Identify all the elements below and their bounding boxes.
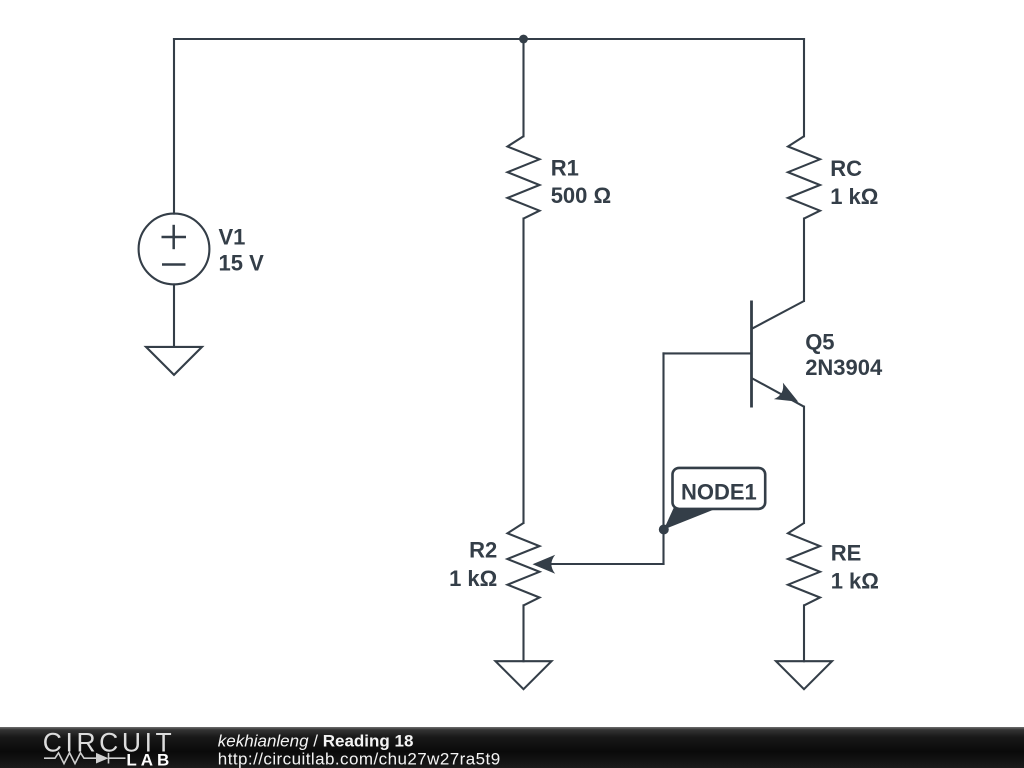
svg-text:LAB: LAB bbox=[126, 750, 173, 768]
svg-text:RC: RC bbox=[830, 156, 862, 181]
wire top rail bbox=[174, 38, 804, 40]
svg-text:NODE1: NODE1 bbox=[681, 480, 757, 505]
node junction dot (top rail) bbox=[519, 35, 528, 44]
svg-text:Q5: Q5 bbox=[805, 330, 834, 355]
wire R2 bottom bbox=[522, 605, 524, 661]
svg-text:kekhianleng / Reading 18: kekhianleng / Reading 18 bbox=[218, 732, 414, 751]
resistor R1 bbox=[508, 136, 540, 218]
svg-text:RE: RE bbox=[831, 541, 862, 566]
ground (RE) bbox=[776, 661, 832, 689]
svg-text:15 V: 15 V bbox=[219, 251, 265, 276]
R2 wiper arrowhead bbox=[533, 555, 556, 574]
wire base horizontal bbox=[664, 352, 751, 354]
NODE1 flag box bbox=[673, 468, 766, 509]
footer bar bbox=[0, 727, 1024, 768]
wire emitter down to RE bbox=[803, 407, 805, 523]
Q5 emitter arrowhead bbox=[774, 383, 803, 410]
svg-text:500 Ω: 500 Ω bbox=[551, 183, 611, 208]
svg-text:1 kΩ: 1 kΩ bbox=[449, 566, 497, 591]
wire RC top bbox=[803, 39, 805, 136]
wire RE bottom bbox=[803, 605, 805, 661]
NODE1 flag pointer tail bbox=[664, 505, 714, 530]
resistor RE bbox=[788, 523, 820, 605]
wire V1 bottom bbox=[173, 284, 175, 347]
ground (V1) bbox=[146, 347, 202, 375]
wire R1 top bbox=[522, 39, 524, 136]
NODE1 attachment dot bbox=[659, 525, 669, 535]
svg-text:2N3904: 2N3904 bbox=[805, 355, 883, 380]
svg-text:V1: V1 bbox=[219, 225, 246, 250]
potentiometer R2 bbox=[508, 523, 540, 605]
wire RC bottom to collector bbox=[803, 219, 805, 301]
wire R1 bottom to R2 top bbox=[522, 219, 524, 523]
wire node vertical bbox=[662, 353, 664, 564]
transistor Q5 bbox=[752, 301, 805, 408]
svg-text:http://circuitlab.com/chu27w27: http://circuitlab.com/chu27w27ra5t9 bbox=[218, 749, 501, 768]
logo resistor squiggle and diode bbox=[44, 753, 126, 764]
svg-text:1 kΩ: 1 kΩ bbox=[830, 184, 878, 209]
svg-text:R1: R1 bbox=[551, 155, 579, 180]
wire wiper horizontal bbox=[549, 563, 664, 565]
wire V1 top bbox=[173, 39, 175, 214]
voltage source V1 bbox=[139, 214, 210, 285]
ground (R2) bbox=[496, 661, 552, 689]
resistor RC bbox=[788, 136, 820, 218]
svg-text:1 kΩ: 1 kΩ bbox=[831, 569, 879, 594]
svg-text:R2: R2 bbox=[469, 537, 497, 562]
